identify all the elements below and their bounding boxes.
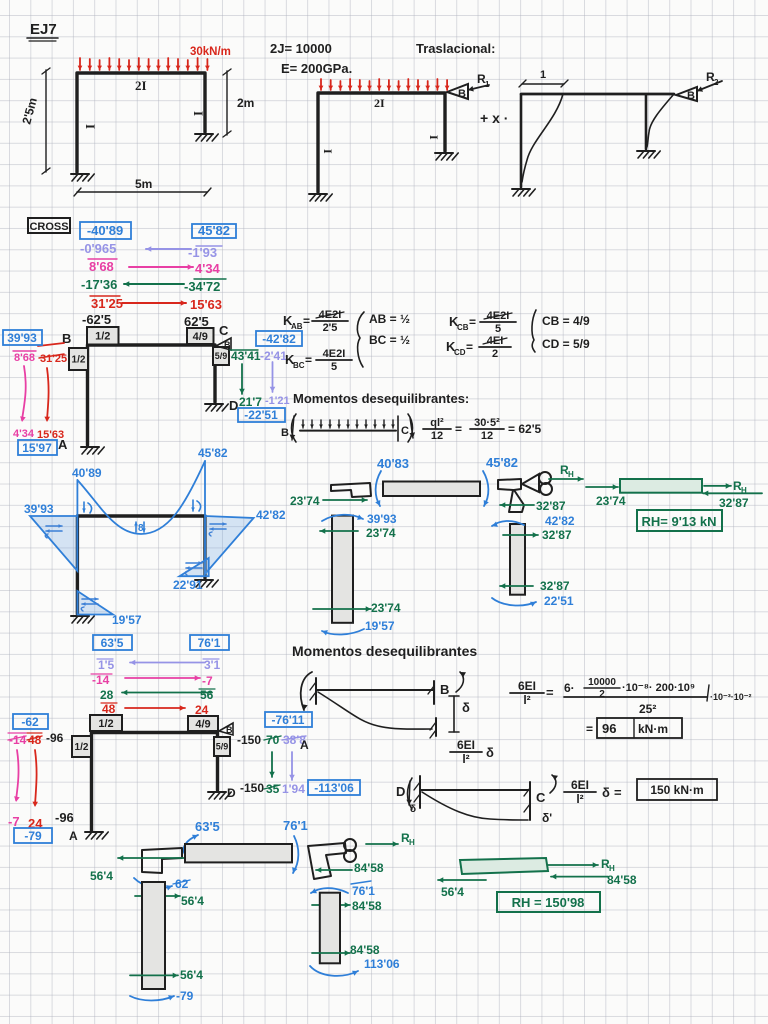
data E=200GPa — [281, 61, 352, 76]
svg-text:1'5: 1'5 — [98, 658, 115, 672]
data 2J=10000 — [270, 41, 332, 56]
svg-text:2'5: 2'5 — [323, 322, 338, 334]
left node icon — [82, 502, 92, 513]
svg-text:70: 70 — [266, 733, 280, 747]
svg-text:D: D — [396, 784, 405, 799]
force 23.74 top col — [320, 526, 396, 540]
red down arrow 2 — [32, 750, 38, 807]
frame 3 right column deflection curve — [647, 94, 674, 147]
right green 43.41 — [230, 349, 261, 363]
formula KCB — [449, 310, 516, 335]
svg-text:23'74: 23'74 — [290, 494, 320, 508]
node label A — [58, 437, 68, 452]
heading momentos desequilibrantes — [293, 391, 469, 406]
svg-text:2: 2 — [599, 689, 605, 700]
value -96 top — [46, 731, 64, 745]
svg-text:-1'21: -1'21 — [265, 395, 290, 407]
force RH green 2 — [548, 857, 615, 873]
svg-text:AB = ½: AB = ½ — [369, 312, 410, 326]
moment value 40.89 — [72, 466, 102, 480]
frame 2 outline — [318, 93, 445, 192]
green down arrow 2 — [269, 752, 275, 777]
frame 3 outline — [521, 94, 674, 187]
label 19.57 col — [365, 619, 395, 633]
node B arrow frame 2 — [447, 72, 490, 100]
right column moment triangle — [205, 516, 254, 574]
cross frame left support hatch — [81, 447, 104, 454]
svg-text:4E2I: 4E2I — [323, 348, 346, 360]
green beam summary 1 — [620, 479, 702, 493]
node arrow B 2 — [219, 723, 233, 735]
cross frame outline — [88, 345, 216, 445]
boxed 39.93 blue — [3, 330, 42, 345]
svg-text:2: 2 — [492, 348, 498, 360]
svg-text:CB = 4/9: CB = 4/9 — [542, 314, 590, 328]
svg-text:15'63: 15'63 — [190, 297, 222, 312]
svg-text:Momentos desequilibrantes:: Momentos desequilibrantes: — [293, 391, 469, 406]
svg-text:-22'51: -22'51 — [244, 408, 278, 422]
svg-text:-150: -150 — [240, 781, 264, 795]
svg-text:A: A — [69, 829, 78, 843]
purple down arrow 2 — [289, 752, 295, 780]
col result 15.63 red — [37, 429, 64, 441]
svg-text:E= 200GPa.: E= 200GPa. — [281, 61, 352, 76]
boxed 76.1 blue — [190, 635, 229, 650]
row4 red distribution — [90, 296, 222, 312]
svg-text:3'1: 3'1 — [204, 658, 221, 672]
value -14 struck magenta — [8, 733, 27, 747]
svg-text:CD = 5/9: CD = 5/9 — [542, 337, 590, 351]
boxed 15.97 blue — [18, 440, 57, 455]
boxed -76.11 blue — [265, 712, 312, 727]
corner bracket C2 — [308, 839, 356, 879]
frame 2 right column label I — [427, 135, 441, 140]
label A bottom 2 — [69, 829, 78, 843]
moment value 39.93 — [24, 502, 54, 516]
frame 1 outline — [77, 73, 205, 172]
distribution box2 4/9 beam — [188, 716, 218, 731]
left bottom moment triangle — [77, 591, 113, 615]
cross frame 2 left hatch — [85, 832, 108, 839]
svg-text:B: B — [226, 725, 233, 735]
sketch2 outline — [396, 775, 558, 825]
svg-text:23'74: 23'74 — [366, 526, 396, 540]
svg-text:-96: -96 — [46, 731, 64, 745]
force 32.87 top rcol — [503, 528, 572, 542]
blue 76.1 bottom — [283, 818, 308, 833]
svg-text:39'93: 39'93 — [7, 331, 37, 345]
svg-text:19'57: 19'57 — [112, 613, 142, 627]
svg-text:-42'82: -42'82 — [262, 332, 296, 346]
frame 3 unit dimension — [519, 69, 568, 87]
green 21.7 — [239, 395, 262, 409]
svg-text:24: 24 — [195, 703, 209, 717]
svg-text:23'74: 23'74 — [371, 601, 401, 615]
svg-text:39'93: 39'93 — [24, 502, 54, 516]
svg-text:D: D — [229, 398, 238, 413]
svg-text:48: 48 — [102, 702, 116, 716]
svg-text:=: = — [546, 685, 554, 700]
frame 1 right column label I — [191, 111, 206, 116]
node label B left — [62, 331, 71, 346]
fixed end moment -62.5 — [82, 312, 111, 327]
left column moment triangle — [30, 516, 77, 571]
svg-text:CROSS: CROSS — [29, 221, 68, 233]
svg-text:-2'41: -2'41 — [260, 349, 287, 363]
distribution box2 1/2 col — [72, 736, 91, 757]
arc arrow top right col — [492, 521, 524, 527]
frame 3 right support hatch — [637, 151, 660, 158]
value -40.89 blue — [80, 222, 131, 239]
col value 31.25 red struck — [39, 353, 67, 365]
boxed -62 blue — [13, 714, 48, 729]
svg-text:32'87: 32'87 — [540, 579, 570, 593]
svg-text:4/9: 4/9 — [195, 718, 210, 730]
svg-text:BC = ½: BC = ½ — [369, 333, 410, 347]
blue 63.5 bottom — [195, 819, 220, 834]
brace AB BC — [357, 312, 364, 367]
right column member 2 — [320, 893, 340, 964]
svg-text:H: H — [609, 864, 615, 873]
svg-text:5/9: 5/9 — [216, 742, 229, 752]
svg-text:30·5²: 30·5² — [474, 417, 500, 429]
svg-text:-14: -14 — [92, 673, 110, 687]
svg-text:6EI: 6EI — [571, 778, 589, 792]
svg-text:C: C — [536, 790, 546, 805]
svg-text:-150: -150 — [237, 733, 261, 747]
beam BC sketch with load — [281, 414, 415, 442]
cross frame right support hatch — [205, 404, 228, 411]
force 32.87 green beam — [703, 491, 762, 511]
svg-text:kN·m: kN·m — [638, 722, 668, 736]
svg-text:I: I — [191, 111, 206, 116]
svg-text:1: 1 — [485, 80, 490, 89]
distribution box 1/2 column left — [69, 348, 88, 370]
formula 150kNm — [564, 778, 717, 806]
dimension 2.5m — [19, 68, 50, 174]
svg-text:76'1: 76'1 — [352, 884, 375, 898]
load label 30kN/m — [190, 46, 231, 58]
node label C right — [219, 323, 229, 338]
svg-text:12: 12 — [481, 430, 493, 442]
svg-text:-7: -7 — [8, 814, 20, 829]
svg-text:-14: -14 — [9, 733, 27, 747]
svg-text:4/9: 4/9 — [193, 331, 208, 343]
svg-text:2'5m: 2'5m — [19, 96, 39, 126]
svg-text:45'82: 45'82 — [486, 455, 518, 470]
svg-text:·10⁻⁸· 200·10⁹: ·10⁻⁸· 200·10⁹ — [622, 682, 695, 694]
row1 purple 2 — [97, 658, 221, 672]
green down arrow right — [239, 364, 245, 394]
svg-text:AB: AB — [291, 322, 303, 331]
force 84.58 green 2 — [551, 873, 637, 887]
dimension 5m — [74, 177, 211, 196]
corner bracket C1 — [498, 472, 552, 512]
frame 1 left support hatch — [71, 174, 94, 181]
svg-text:5/9: 5/9 — [215, 351, 228, 361]
arc arrow top right col 2 — [311, 888, 348, 893]
svg-text:RH= 9'13 kN: RH= 9'13 kN — [642, 514, 717, 529]
arc arrow bottom right col 2 — [310, 966, 358, 976]
right column member rect — [510, 524, 525, 595]
svg-text:-79: -79 — [176, 989, 194, 1003]
svg-text:1/2: 1/2 — [95, 331, 110, 343]
purple down arrow right — [270, 362, 276, 392]
value 38.8 struck purple — [282, 733, 306, 747]
svg-text:δ: δ — [602, 785, 610, 800]
frame 2 right support hatch — [435, 153, 458, 160]
svg-text:CD: CD — [454, 348, 466, 357]
distribution box 1/2 beam left — [87, 327, 119, 345]
boxed 63.5 blue — [93, 635, 132, 650]
sketch1 arc — [456, 672, 466, 692]
brace CB CD — [532, 310, 536, 352]
label 39.93 col — [367, 512, 397, 526]
ratio BC=1/2 — [369, 333, 410, 347]
force RH top — [549, 463, 583, 482]
svg-text:RH = 150'98: RH = 150'98 — [512, 895, 585, 910]
svg-text:43'41: 43'41 — [231, 349, 261, 363]
sketch1 wall and beam — [301, 672, 436, 738]
svg-text:H: H — [409, 838, 415, 847]
force RH green beam — [704, 479, 747, 495]
right purple -2.41 — [260, 349, 287, 363]
red tick to B — [38, 343, 64, 346]
svg-text:48: 48 — [28, 733, 42, 747]
right bottom icon — [185, 561, 202, 575]
svg-text:-0'965: -0'965 — [80, 241, 116, 256]
moment value 45.82 top — [198, 446, 228, 460]
force 56.4 left top — [90, 855, 186, 883]
node D 2 — [227, 786, 236, 800]
arc arrow top left col — [322, 515, 363, 522]
blue 76.1 col — [351, 881, 375, 898]
cross frame 2 outline — [92, 733, 218, 832]
moment frame left hatch — [71, 616, 94, 623]
sketch1 6EI/l2 d — [450, 738, 494, 766]
distribution box 5/9 column right — [213, 347, 229, 365]
moment value 19.57 — [112, 613, 142, 627]
title EJ7 — [27, 21, 58, 41]
svg-text:l²: l² — [576, 792, 583, 806]
svg-text:B: B — [224, 340, 231, 350]
ratio CD=5/9 — [542, 337, 590, 351]
arc arrow bottom right col — [492, 598, 536, 607]
moment frame right hatch — [195, 580, 218, 587]
svg-text:6·: 6· — [564, 681, 575, 695]
svg-text:I: I — [83, 124, 98, 129]
value 45.82 blue — [192, 223, 236, 238]
label A right — [300, 738, 309, 752]
boxed -113.06 blue — [308, 780, 360, 795]
svg-text:84'58: 84'58 — [350, 943, 380, 957]
row3 green carryover — [81, 277, 226, 294]
svg-text:1/2: 1/2 — [72, 355, 86, 366]
svg-text:6EI: 6EI — [518, 679, 536, 693]
blue -79 — [176, 989, 194, 1003]
svg-text:30kN/m: 30kN/m — [190, 46, 231, 58]
force 32.87 under C — [500, 499, 566, 513]
svg-text:84'58: 84'58 — [354, 861, 384, 875]
svg-text:63'5: 63'5 — [101, 636, 124, 650]
svg-text:-34'72: -34'72 — [184, 279, 220, 294]
svg-text:5: 5 — [495, 323, 501, 335]
beam moment curve blue — [77, 461, 205, 534]
moment 40.83 blue — [377, 456, 409, 471]
boxed -22.51 blue — [238, 408, 285, 422]
node B arrow frame 3 — [676, 70, 722, 102]
svg-text:B: B — [687, 90, 695, 102]
corner bracket B1 — [331, 483, 371, 497]
svg-text:A: A — [300, 738, 309, 752]
moment value 22.91 — [173, 578, 203, 592]
svg-text:-17'36: -17'36 — [81, 277, 117, 292]
svg-text:CB: CB — [457, 323, 469, 332]
svg-text:δ': δ' — [542, 811, 552, 825]
svg-text:-79: -79 — [24, 829, 42, 843]
svg-text:·10⁻³·10⁻²: ·10⁻³·10⁻² — [710, 692, 752, 702]
row2 magenta distribution — [88, 259, 221, 276]
fixed end moment 62.5 — [184, 314, 209, 329]
arc arrow left beam1 — [375, 471, 381, 506]
value -96 bottom — [55, 810, 74, 825]
arc arrow 63.5 — [184, 835, 198, 856]
purple -1.21 — [265, 395, 290, 407]
svg-text:4'34: 4'34 — [13, 428, 35, 440]
sketch1 delta — [462, 700, 470, 715]
svg-text:84'58: 84'58 — [352, 899, 382, 913]
left bottom icon — [81, 597, 98, 611]
svg-text:=: = — [303, 314, 310, 328]
force 32.87 bottom rcol — [500, 579, 570, 593]
svg-text:2I: 2I — [135, 78, 147, 93]
blue 113.06 — [364, 957, 400, 971]
value 35 struck green — [264, 782, 280, 796]
left col moment icon — [45, 524, 62, 538]
svg-text:19'57: 19'57 — [365, 619, 395, 633]
svg-text:40'83: 40'83 — [377, 456, 409, 471]
formula KBC — [285, 348, 352, 373]
svg-text:84'58: 84'58 — [607, 873, 637, 887]
svg-text:42'82: 42'82 — [256, 508, 286, 522]
svg-text:76'1: 76'1 — [198, 636, 221, 650]
col value 8.68 magenta — [13, 351, 36, 364]
svg-text:4'34: 4'34 — [195, 261, 221, 276]
left column member rect — [332, 516, 353, 623]
value 70 struck green — [264, 733, 281, 747]
svg-text:=: = — [586, 722, 593, 736]
force 56.4 green 2 — [438, 877, 486, 899]
svg-text:5m: 5m — [135, 177, 152, 191]
svg-text:56'4: 56'4 — [441, 885, 464, 899]
label 22.51 col — [544, 594, 574, 608]
formula KAB — [283, 309, 348, 334]
svg-text:C: C — [401, 425, 409, 437]
arc arrow right beam1 — [483, 471, 489, 506]
svg-text:45'82: 45'82 — [198, 446, 228, 460]
svg-text:I: I — [427, 135, 441, 140]
svg-text:56'4: 56'4 — [90, 869, 113, 883]
frame 3 left support hatch — [512, 189, 535, 196]
beam member rect 1 — [383, 482, 480, 497]
red down arrow — [44, 368, 50, 422]
ratio CB=4/9 — [542, 314, 590, 328]
svg-text:2: 2 — [714, 78, 719, 87]
svg-text:=: = — [466, 340, 473, 354]
right bottom moment triangle — [180, 558, 209, 576]
boxed RH=9.13kN — [637, 510, 722, 531]
node label D — [229, 398, 238, 413]
svg-text:I: I — [321, 149, 335, 154]
value 48 struck red — [27, 733, 42, 747]
frame 1 beam label 2I — [135, 78, 147, 93]
value -150 D — [240, 781, 264, 795]
svg-text:-7: -7 — [202, 674, 213, 688]
svg-text:32'87: 32'87 — [719, 496, 749, 510]
value -7 magenta — [8, 814, 20, 829]
arc arrow 76.1 — [292, 836, 298, 873]
beam member 2 — [185, 844, 292, 862]
distribution box 4/9 beam right — [187, 328, 214, 344]
svg-text:B: B — [281, 427, 289, 439]
force 23.74 green beam — [586, 484, 626, 508]
svg-text:8'68: 8'68 — [89, 259, 114, 274]
force 84.58 top rcol — [312, 899, 382, 913]
heading Traslacional — [416, 41, 495, 56]
svg-text:=: = — [469, 315, 476, 329]
value 24 red — [28, 816, 43, 831]
svg-text:ql²: ql² — [430, 417, 444, 429]
svg-text:δ: δ — [486, 745, 494, 760]
svg-text:H: H — [568, 470, 574, 479]
force 23.74 left — [290, 494, 367, 508]
force 56.4 bottom lcol — [130, 968, 203, 982]
formula long numerator — [564, 677, 752, 716]
svg-text:δ: δ — [462, 700, 470, 715]
svg-text:B: B — [458, 88, 466, 100]
svg-text:5: 5 — [331, 361, 337, 373]
svg-text:1: 1 — [540, 69, 546, 81]
svg-text:31'25: 31'25 — [91, 296, 123, 311]
svg-text:= 62'5: = 62'5 — [508, 422, 542, 436]
svg-text:-40'89: -40'89 — [87, 223, 123, 238]
svg-text:D: D — [227, 786, 236, 800]
force 84.58 corner — [316, 861, 384, 875]
svg-text:76'1: 76'1 — [283, 818, 308, 833]
svg-text:=: = — [455, 422, 462, 436]
moment value 42.82 right — [256, 508, 286, 522]
svg-text:42'82: 42'82 — [545, 514, 575, 528]
svg-text:63'5: 63'5 — [195, 819, 220, 834]
svg-text:56'4: 56'4 — [180, 968, 203, 982]
col result 4.34 magenta — [13, 428, 35, 440]
boxed -42.82 blue — [256, 331, 302, 346]
frame 2 distributed load arrows — [319, 79, 450, 90]
force 56.4 left mid — [135, 893, 204, 908]
svg-text:2m: 2m — [237, 96, 254, 110]
right col moment icon — [209, 522, 226, 536]
svg-text:15'97: 15'97 — [22, 441, 52, 455]
svg-text:Momentos desequilibrantes: Momentos desequilibrantes — [292, 643, 477, 659]
svg-text:12: 12 — [431, 430, 443, 442]
svg-text:-1'93: -1'93 — [188, 245, 217, 260]
svg-text:δ: δ — [410, 804, 416, 815]
heading momentos desequilibrantes 2 — [292, 643, 477, 659]
blue 62 struck — [173, 877, 190, 891]
frame 2 left support hatch — [309, 194, 332, 201]
moment 45.82 blue — [486, 455, 518, 470]
svg-text:8'68: 8'68 — [14, 352, 35, 364]
